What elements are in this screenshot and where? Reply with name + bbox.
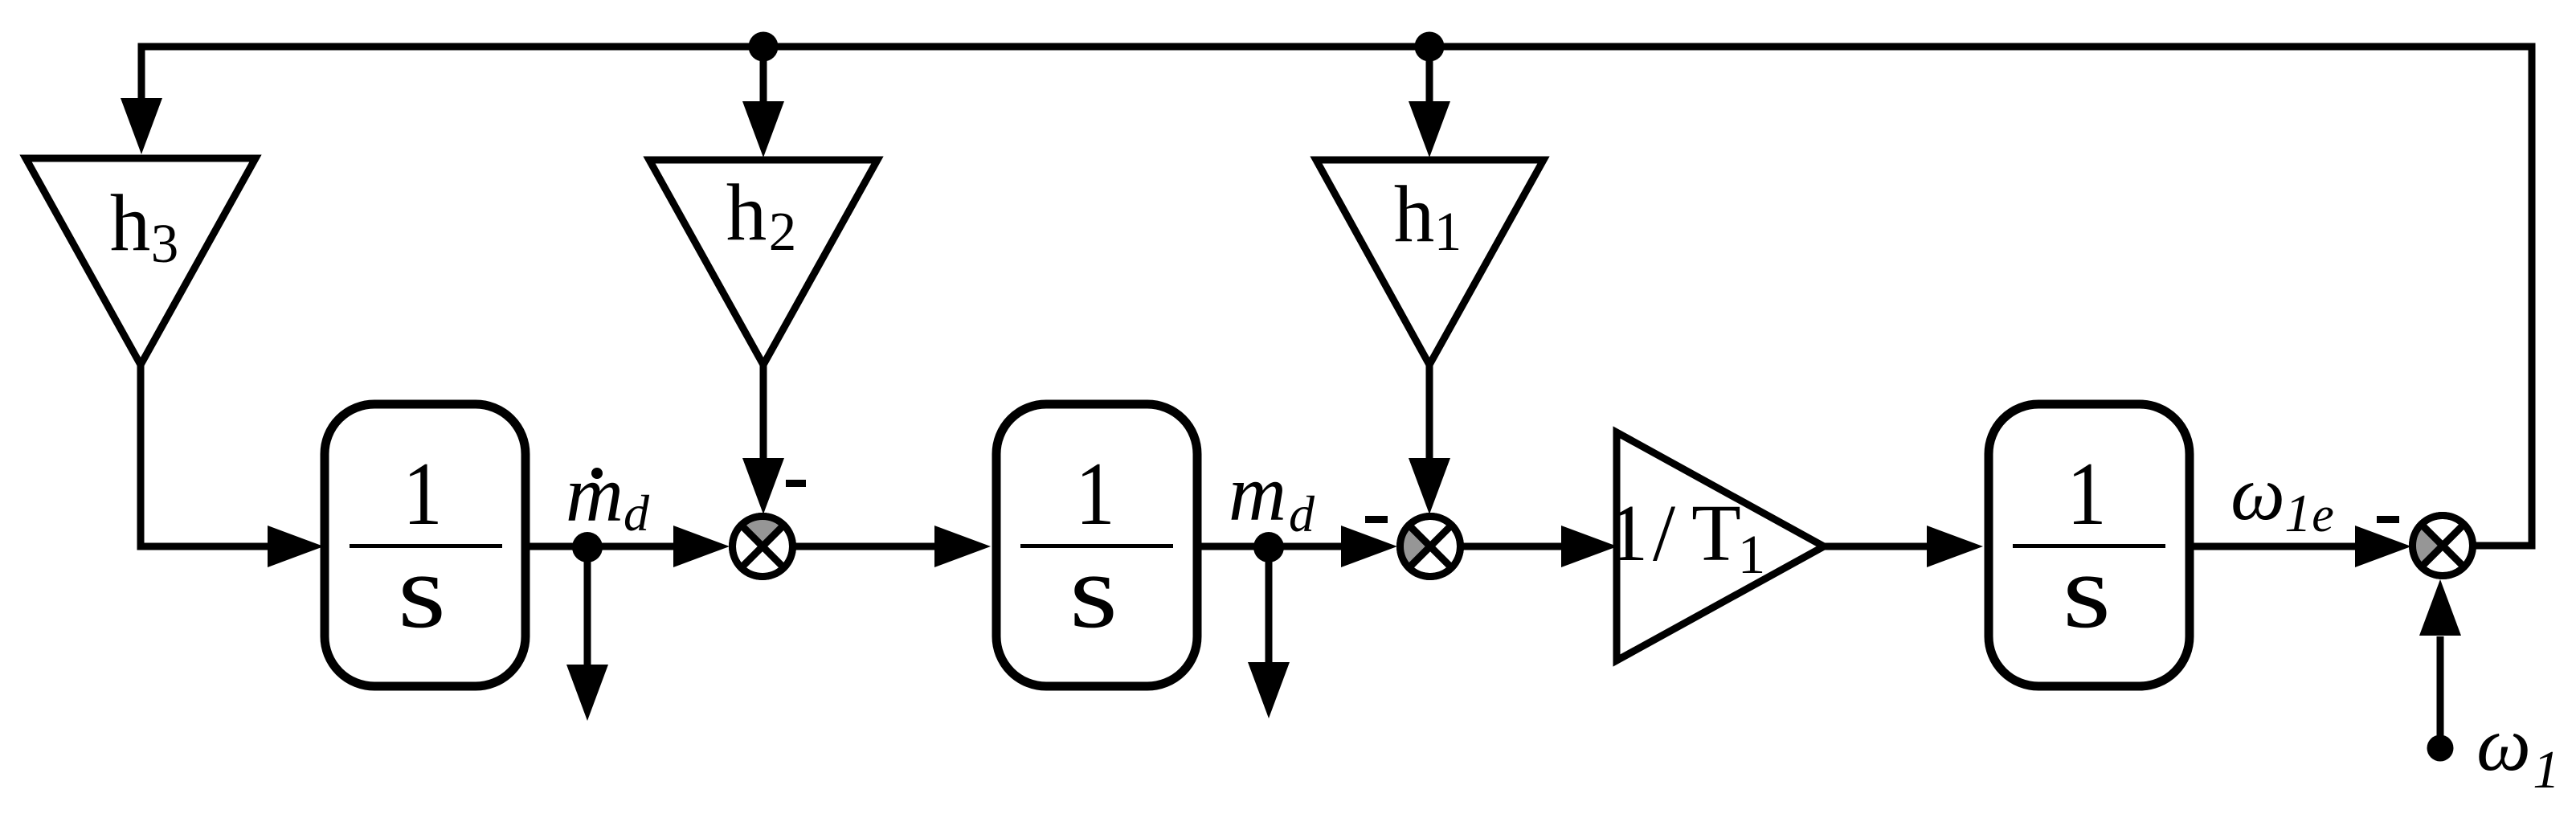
- wire 1/T1 to integrator 3: [1824, 543, 1927, 550]
- gain h2: [649, 160, 877, 365]
- svg-text:1: 1: [1075, 444, 1114, 543]
- svg-text:m: m: [566, 449, 624, 538]
- wire omega1 input up into multiplier 3: [2437, 636, 2444, 748]
- svg-text:/: /: [1653, 488, 1676, 578]
- label omega-1e: [2230, 450, 2334, 543]
- wire arrow out of m-dot node down: [584, 547, 591, 667]
- svg-text:m: m: [1229, 448, 1286, 538]
- minus sign at multiplier 1: [786, 480, 806, 487]
- node omega1 source dot: [2427, 735, 2454, 762]
- svg-text:T: T: [1691, 488, 1741, 578]
- wire h3 to integrator 1: [141, 365, 270, 546]
- node md-dot: [572, 532, 603, 562]
- multiplier M3: [2413, 516, 2473, 576]
- svg-text:d: d: [1289, 485, 1315, 542]
- node A top line above h2: [749, 32, 779, 62]
- svg-text:h: h: [726, 167, 767, 257]
- svg-text:ω: ω: [2230, 450, 2285, 536]
- gain 1/T1: [1608, 432, 1824, 661]
- wire arrow down from md node: [1266, 547, 1273, 665]
- label md: [1229, 448, 1315, 542]
- svg-text:e: e: [2312, 488, 2334, 542]
- multiplier M1: [733, 517, 793, 577]
- wire arrow into multiplier 2: [1341, 526, 1397, 567]
- svg-text:1: 1: [1738, 524, 1766, 585]
- wire integrator3 output: [2190, 543, 2357, 550]
- wire arrow into multiplier 1: [673, 526, 730, 567]
- svg-text:2: 2: [769, 201, 797, 262]
- svg-text:h: h: [110, 178, 151, 268]
- integrator block 1/s (2): [996, 404, 1197, 686]
- svg-text:ω: ω: [2476, 701, 2531, 787]
- svg-text:1: 1: [2533, 740, 2560, 800]
- label m-dot-d: [566, 449, 650, 542]
- wire h1 drop from top line: [1426, 47, 1433, 104]
- svg-text:s: s: [398, 533, 446, 651]
- wire arrow into h3: [121, 98, 162, 154]
- svg-text:1: 1: [1434, 201, 1462, 262]
- multiplier M2: [1400, 517, 1461, 577]
- label omega-1: [2476, 701, 2560, 800]
- svg-text:1: 1: [1608, 488, 1649, 578]
- svg-text:3: 3: [151, 213, 179, 274]
- svg-text:s: s: [2063, 533, 2111, 651]
- svg-text:1: 1: [2067, 444, 2106, 543]
- wire multiplier2 to gain 1/T1: [1461, 543, 1563, 550]
- wire multiplier1 to integrator 2: [793, 543, 936, 550]
- svg-text:h: h: [1394, 169, 1435, 259]
- integrator block 1/s (1): [325, 404, 525, 686]
- node B top line above h1: [1415, 32, 1445, 62]
- svg-text:1: 1: [2284, 484, 2312, 543]
- minus sign at multiplier 3: [2377, 516, 2399, 523]
- integrator block 1/s (3): [1989, 404, 2190, 686]
- wire h1 to multiplier 2: [1426, 365, 1433, 460]
- svg-text:s: s: [1069, 533, 1118, 651]
- wire feedback loop top: [141, 47, 2532, 546]
- wire h2 to multiplier 1: [760, 365, 767, 460]
- gain h3: [26, 158, 256, 365]
- gain h1: [1316, 160, 1544, 365]
- svg-text:1: 1: [403, 444, 442, 543]
- wire integrator2 output: [1197, 543, 1343, 550]
- node md: [1253, 532, 1284, 562]
- minus sign at multiplier 2: [1365, 516, 1388, 523]
- wire h2 drop from top line: [760, 47, 767, 104]
- svg-text:d: d: [624, 485, 650, 542]
- wire integrator1 output: [525, 543, 675, 550]
